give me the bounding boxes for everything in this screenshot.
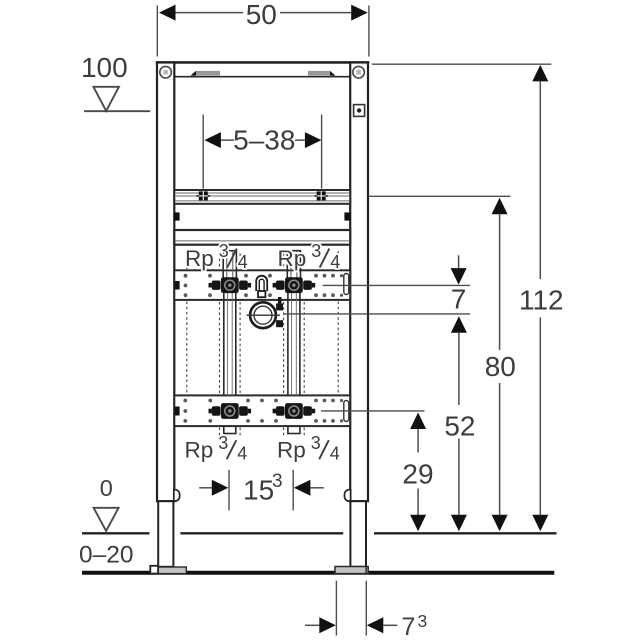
level mark 0 — [94, 475, 119, 531]
dim 52 — [444, 316, 475, 531]
dim 112 (total height) — [519, 65, 564, 531]
water pipe right column — [284, 251, 305, 437]
dim 80 — [485, 198, 516, 532]
label Rp 3/4 lower-right — [277, 433, 340, 464]
svg-text:50: 50 — [246, 0, 277, 30]
extension line frame top to 112 — [372, 63, 552, 65]
dim 7 (supply to drain) — [451, 255, 467, 314]
water pipe left column — [220, 251, 241, 437]
label Rp 3/4 lower-left — [185, 433, 248, 464]
upper plate screw holes — [184, 274, 344, 297]
extension line supply axis to 7 — [323, 284, 471, 286]
right leg collar — [345, 490, 351, 501]
clamp bolt — [276, 303, 283, 310]
corner screw left — [160, 66, 172, 78]
dim 7^3 (leg depth) — [305, 581, 427, 640]
svg-text:29: 29 — [402, 459, 433, 490]
lower crossbar band — [174, 230, 350, 245]
lower fixplate with water connections — [174, 395, 350, 426]
left foot — [158, 567, 187, 574]
svg-text:5–38: 5–38 — [233, 124, 295, 155]
basin mounting rail (80 level) — [174, 190, 350, 204]
raw floor line (0-20) — [82, 571, 554, 575]
frame top bar — [157, 63, 368, 77]
svg-text:15: 15 — [243, 475, 274, 506]
drain hook — [256, 276, 267, 298]
svg-text:52: 52 — [444, 411, 475, 442]
frame right rail — [350, 63, 368, 502]
label Rp 3/4 upper-left — [185, 241, 248, 272]
water supply plate (upper) — [174, 270, 350, 300]
dim 50 (top width) — [157, 0, 369, 57]
right leg — [350, 501, 366, 567]
hatch strip left — [191, 71, 197, 76]
drain pipe clamp — [247, 297, 284, 328]
dim 29 — [402, 413, 433, 532]
dim 15^3 (supply spacing) — [199, 470, 324, 511]
union nut upper-right Rp3/4 — [273, 277, 316, 293]
corner screw right — [353, 66, 365, 78]
dim 5-38 (basin rail range) — [203, 115, 321, 189]
frame left rail — [157, 63, 174, 502]
channel dashed line left — [187, 251, 338, 395]
hatch strip right — [308, 71, 330, 76]
extension line rail to 80 — [369, 195, 511, 197]
level mark 100 — [81, 52, 150, 111]
right foot — [335, 567, 368, 574]
svg-text:112: 112 — [519, 284, 564, 315]
union nut lower-left Rp3/4 — [209, 403, 252, 419]
svg-text:80: 80 — [485, 351, 516, 382]
svg-text:3: 3 — [418, 611, 428, 631]
union nut lower-right Rp3/4 — [273, 403, 316, 419]
svg-text:3: 3 — [272, 471, 283, 492]
latch box on right rail — [354, 105, 365, 117]
channel dashed line right — [337, 251, 339, 395]
svg-text:7: 7 — [402, 613, 416, 640]
lower plate screw holes — [183, 399, 343, 423]
union nut upper-left Rp3/4 — [209, 277, 252, 293]
extension line lower supply axis to 29 — [321, 410, 425, 412]
finished floor line (level 0) — [82, 532, 557, 534]
rail bolt right — [317, 191, 326, 200]
svg-text:0–20: 0–20 — [79, 541, 134, 568]
extension line drain axis to 52 — [284, 313, 471, 315]
svg-text:0: 0 — [100, 475, 113, 501]
rail bolt left — [199, 191, 208, 200]
left leg — [158, 501, 173, 567]
svg-text:7: 7 — [451, 284, 467, 315]
left leg collar — [174, 490, 180, 501]
label Rp 3/4 upper-right — [278, 241, 341, 272]
side tabs below rail — [174, 212, 180, 220]
svg-text:100: 100 — [81, 52, 128, 83]
